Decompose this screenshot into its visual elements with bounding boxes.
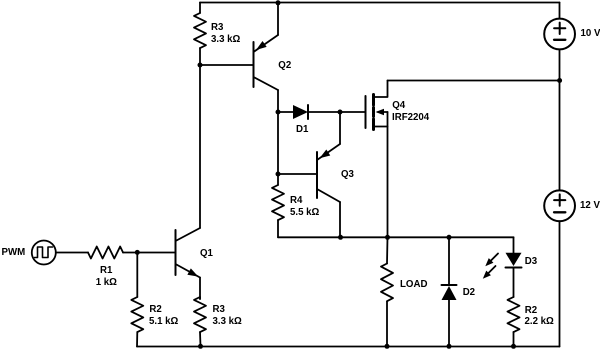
- diode D2 (flyback, pointing up): [442, 237, 457, 346]
- resistor LOAD: [381, 237, 393, 346]
- label 12 V: [580, 200, 600, 211]
- label D2: [463, 287, 475, 298]
- label R1 value 1 kOhm: [96, 277, 117, 288]
- label Q3: [341, 169, 354, 180]
- junction R3 bottom / rail: [198, 344, 203, 349]
- junction D2 bottom / rail: [447, 344, 452, 349]
- label D3: [525, 256, 537, 267]
- junction R1 / R2 / Q1 base: [135, 250, 140, 255]
- label Q2: [278, 60, 291, 71]
- resistor R3 (top): [194, 3, 206, 66]
- wire Q4 drain rail: [388, 80, 560, 82]
- resistor R3 3.3 kOhm (bottom): [194, 297, 206, 347]
- label R1: [100, 265, 112, 276]
- junction R4 / Q3 base: [276, 172, 281, 177]
- resistor R4 5.5 kOhm: [272, 174, 284, 237]
- wire between sources: [559, 81, 561, 191]
- label PWM: [2, 247, 26, 258]
- node A junction (R3/Q2 base/Q1 collector): [198, 63, 203, 68]
- junction drain rail / supply: [557, 78, 562, 83]
- label R2 (left): [149, 304, 161, 315]
- wire mid rail: [278, 236, 514, 238]
- label R4 value 5.5 kOhm: [290, 207, 319, 218]
- wire top rail: [200, 2, 560, 4]
- source V2 12 V: [544, 190, 575, 346]
- resistor R2 5.1 kOhm (left): [131, 253, 143, 347]
- wire node A down to Q1 collector: [199, 65, 201, 228]
- label R3 (bottom): [213, 304, 225, 315]
- label D1: [296, 124, 308, 135]
- wire gate: [340, 111, 365, 113]
- label R2 (right): [525, 305, 537, 316]
- label Q1: [200, 248, 213, 259]
- transistor Q3 (PNP): [278, 112, 340, 237]
- wire bottom rail: [137, 346, 560, 348]
- junction Q2 collector / D1 / R4 branch: [276, 110, 281, 115]
- junction D2 top: [447, 235, 452, 240]
- resistor R1 1 kOhm: [88, 247, 137, 259]
- label R3 (top): [211, 22, 223, 33]
- junction LOAD bottom / rail: [385, 344, 390, 349]
- resistor R2 2.2 kOhm (right): [508, 297, 520, 347]
- junction R2 bottom / rail: [511, 344, 516, 349]
- label R3 value 3.3 kOhm (bottom): [213, 316, 242, 327]
- transistor Q1 (NPN): [137, 228, 200, 299]
- label Q4: [392, 100, 405, 111]
- label LOAD: [400, 279, 427, 290]
- label R4: [290, 195, 302, 206]
- transistor Q4 (NMOS IRF2204): [366, 81, 388, 238]
- wire D1 node down to R4 node: [277, 112, 279, 174]
- label R2 value 5.1 kOhm: [149, 316, 178, 327]
- LED D3 (pointing down): [506, 237, 522, 297]
- source PWM: [32, 241, 88, 265]
- label Q4 part IRF2204: [392, 112, 429, 123]
- junction Q3 collector / mid rail: [338, 235, 343, 240]
- junction Q4 source / LOAD: [385, 235, 390, 240]
- wire node A to Q2 base: [200, 64, 253, 66]
- label R2 value 2.2 kOhm: [525, 316, 554, 327]
- source V1 10 V: [544, 3, 575, 81]
- transistor Q2 (PNP): [254, 3, 279, 113]
- junction D1 cathode / gate / Q3 emitter: [338, 110, 343, 115]
- diode D1: [278, 105, 340, 119]
- label 10 V: [581, 28, 600, 39]
- LED D3 light arrows: [480, 254, 498, 282]
- label R3 value 3.3 kOhm (top): [211, 34, 240, 45]
- junction Q2 emitter / top rail: [276, 0, 281, 5]
